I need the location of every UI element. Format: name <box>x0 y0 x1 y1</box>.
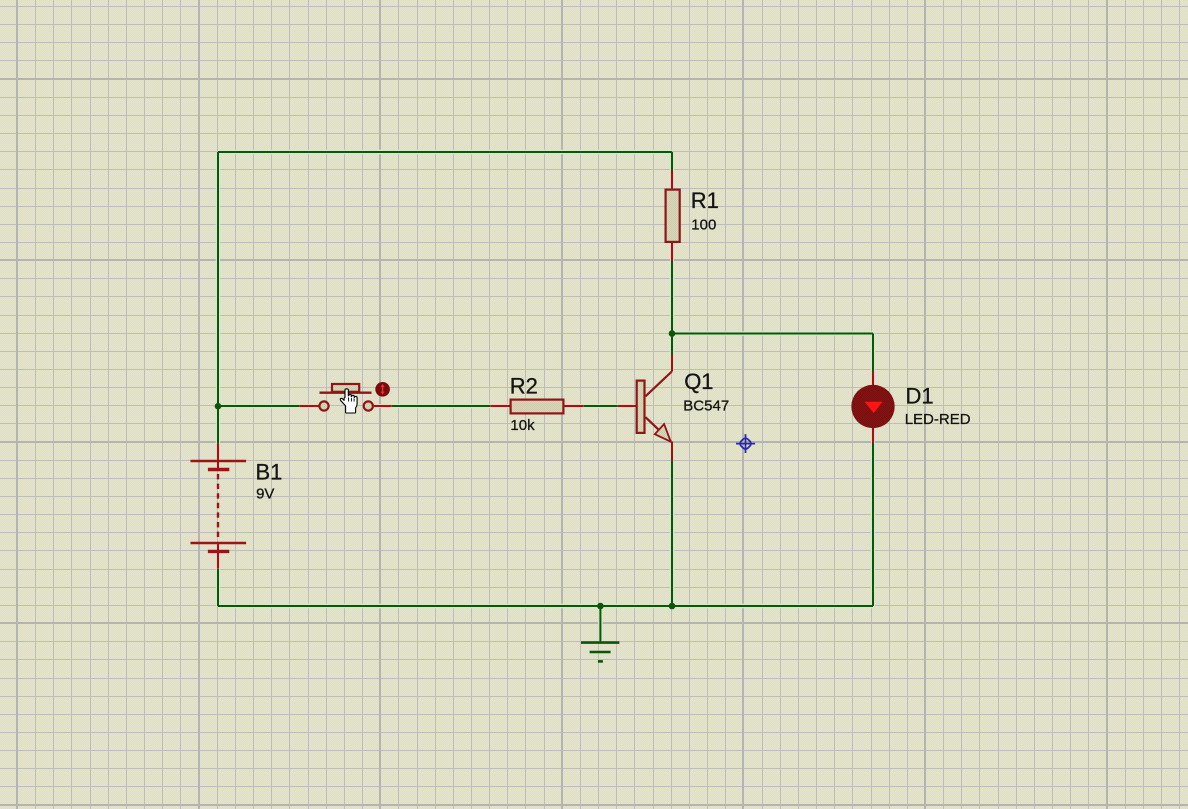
wire: LED top stub <box>872 334 874 372</box>
wire: collector stub <box>671 334 673 355</box>
battery B1 internal dashed link <box>217 474 219 539</box>
pin: R2 left <box>490 405 509 407</box>
transistor Q1 collector pin <box>671 354 673 372</box>
pin: LED top <box>872 371 874 385</box>
LED D1 body <box>851 385 894 428</box>
junction node: ground <box>597 603 604 610</box>
push button right contact <box>364 401 373 410</box>
junction node: collector/LED branch <box>669 330 676 337</box>
push button cap <box>332 384 359 392</box>
pin: R2 right <box>565 405 584 407</box>
wire: battery node to button <box>218 405 299 407</box>
push button actuator marker <box>375 382 390 397</box>
svg-text:D1: D1 <box>906 383 934 408</box>
battery B1 plate short bottom <box>208 550 229 553</box>
transistor Q1 emitter arrow <box>655 424 671 442</box>
pin: R1 bottom <box>671 243 673 261</box>
origin marker <box>736 434 755 453</box>
pin: button right <box>373 405 392 407</box>
wire: R1 bottom to collector node <box>671 261 673 334</box>
resistor R2 body <box>511 400 564 414</box>
svg-text:R2: R2 <box>510 374 538 399</box>
wire: left vertical (battery bottom) <box>217 569 219 606</box>
pin: R1 top <box>671 171 673 189</box>
svg-text:B1: B1 <box>256 459 283 484</box>
transistor Q1 collector diagonal <box>646 372 672 397</box>
svg-text:LED-RED: LED-RED <box>905 411 971 428</box>
push button left contact <box>319 401 328 410</box>
wire: ground stub <box>599 606 601 643</box>
pin halo layer <box>218 171 873 569</box>
wire: collector node to LED branch <box>672 333 873 335</box>
transistor Q1 base bar <box>637 381 645 433</box>
wire: left vertical (battery top) <box>217 152 219 444</box>
wire: LED bottom to ground rail <box>872 443 874 606</box>
mouse cursor hand <box>340 389 357 413</box>
transistor Q1 emitter pin <box>671 442 673 462</box>
battery B1 plate long bottom <box>191 542 247 545</box>
svg-text:10k: 10k <box>510 417 535 434</box>
wire: emitter to ground rail <box>671 461 673 606</box>
svg-text:BC547: BC547 <box>683 398 729 415</box>
pin: LED bottom <box>872 428 874 443</box>
wire: top horizontal net <box>218 151 672 153</box>
pin: battery top <box>217 444 219 470</box>
svg-text:Q1: Q1 <box>684 369 713 394</box>
wire: button to R2 <box>392 405 491 407</box>
ground symbol <box>581 643 619 662</box>
junction node: emitter/ground rail <box>669 603 676 610</box>
wire halo layer <box>218 152 873 643</box>
svg-text:100: 100 <box>691 216 716 233</box>
transistor Q1 emitter diagonal <box>646 417 672 441</box>
push button bar <box>320 392 372 394</box>
wire: R2 to base <box>584 405 618 407</box>
battery B1 plate short top <box>208 468 229 471</box>
battery B1 plate long top <box>191 460 247 463</box>
pin: Q1 base <box>618 405 637 407</box>
svg-text:9V: 9V <box>256 485 274 502</box>
pin: battery bottom <box>217 543 219 569</box>
pin: button left <box>299 405 318 407</box>
svg-text:R1: R1 <box>691 188 719 213</box>
resistor R1 body <box>666 190 680 242</box>
junction node: battery/button <box>215 403 222 410</box>
LED D1 arrow triangle <box>865 402 883 413</box>
wire: R1 top stub <box>671 152 673 171</box>
wire: bottom horizontal net <box>218 605 873 607</box>
